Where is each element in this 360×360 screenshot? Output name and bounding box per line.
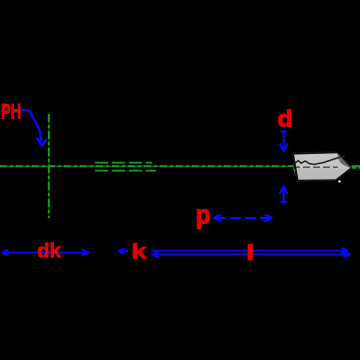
dimension arrow d upper (pointing down) [280, 131, 288, 152]
cone outline: bottom edge [298, 179, 337, 182]
cone lower half subtle shade [293, 169, 351, 181]
cone outline: left (mouth) edge [293, 154, 298, 181]
svg-text:dk: dk [37, 240, 62, 263]
svg-text:PH: PH [1, 101, 21, 124]
cone outline: top edge [293, 152, 337, 153]
upper parallel dashed segment near axis [95, 162, 152, 164]
cone jagged tear line [293, 156, 345, 165]
pinhole plane (vertical green dash-dot line) [48, 114, 50, 218]
dimension arrow k (double-headed, long) [118, 248, 348, 254]
svg-text:k: k [131, 240, 147, 264]
dimension arrow p (dashed, double-headed) [214, 215, 273, 222]
arrow from PH to pinhole plane [21, 110, 47, 146]
dimension arrow dk (double-headed) [2, 250, 90, 256]
dimension arrow d lower (pointing up) [280, 186, 288, 203]
lower parallel dashed segment near axis [95, 170, 156, 172]
cone curl (rolled tip dark crescent) [337, 152, 352, 168]
white speck below cone [338, 180, 340, 182]
axis bright segment right of apex [352, 165, 360, 168]
label l [248, 244, 253, 260]
axis dashes over cone (dark green) [293, 166, 338, 168]
cone outline: lower right diagonal to apex [336, 168, 352, 180]
cone object body [293, 152, 352, 181]
cone outline: upper right curl edge to apex [337, 152, 352, 168]
optical axis (horizontal green dash-dot line) [0, 165, 360, 167]
svg-text:d: d [278, 106, 293, 132]
svg-text:p: p [196, 200, 211, 230]
dimension arrow l (double-headed, long) [152, 252, 351, 258]
